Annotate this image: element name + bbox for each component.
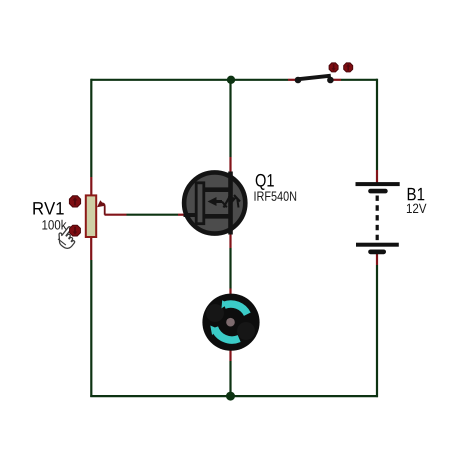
- transistor Q1 body circle: [184, 172, 245, 233]
- battery B1 top cell short plate: [368, 189, 388, 194]
- wire gate green middle: [127, 214, 179, 216]
- switch lever: [298, 76, 331, 80]
- wire motor top red pin: [229, 289, 231, 297]
- battery B1 bottom cell long plate: [356, 243, 399, 247]
- interactive up-arrow button of switch: [344, 63, 353, 72]
- mouse hand cursor: [54, 224, 80, 251]
- wire pot top red pin: [90, 177, 92, 196]
- wire center green from motor to bottom rail: [229, 361, 231, 396]
- wire top rail right segment to corner: [341, 79, 378, 81]
- wire left rail lower green: [90, 260, 92, 397]
- wire pot bottom red pin: [90, 237, 92, 260]
- motor rotation arrow bottom: [210, 326, 239, 341]
- wire battery top red pin: [376, 170, 378, 183]
- wire red stub into switch left terminal: [288, 79, 296, 81]
- wire left rail upper green: [90, 79, 92, 177]
- battery B1 top cell long plate: [356, 182, 400, 186]
- label Q1: [256, 174, 274, 190]
- transistor Q1 internal symbol: [184, 172, 241, 235]
- wire red stub from switch right terminal: [333, 79, 341, 81]
- battery B1 bottom cell short plate: [368, 250, 386, 255]
- value label 12V: [407, 204, 427, 213]
- wire mosfet source red pin: [229, 232, 231, 248]
- wire battery bottom red pin: [376, 252, 378, 265]
- motor rotation arrow top: [222, 300, 248, 314]
- wire right rail upper green: [376, 79, 378, 170]
- wire mosfet drain red pin: [229, 157, 231, 175]
- interactive up-arrow button of RV1: [69, 196, 80, 207]
- wire gate red pin at mosfet: [178, 214, 184, 216]
- value label IRF540N: [255, 191, 297, 201]
- motor shaft center dot: [226, 318, 235, 327]
- node junction top rail: [227, 76, 235, 84]
- motor M body: [202, 294, 259, 351]
- label RV1: [33, 202, 63, 214]
- potentiometer RV1 wiper arrow: [97, 200, 105, 215]
- switch right terminal: [327, 77, 334, 84]
- interactive down-arrow button of switch: [329, 63, 338, 72]
- label B1: [408, 188, 425, 200]
- node junction bottom rail: [226, 392, 235, 401]
- value label 100k: [42, 220, 66, 230]
- wire top rail left segment: [91, 79, 288, 81]
- wire center drain green from top junction: [229, 80, 231, 157]
- wire bottom rail: [90, 395, 378, 397]
- switch left terminal: [295, 77, 302, 84]
- potentiometer RV1 body: [86, 195, 96, 237]
- wire center green between mosfet and motor: [229, 248, 231, 289]
- interactive down-arrow button of RV1: [70, 225, 81, 236]
- wire motor bottom red pin: [229, 349, 231, 361]
- wire gate red stub from pot wiper: [105, 214, 127, 216]
- wire right rail lower green: [376, 265, 378, 397]
- battery internal dashed line: [376, 196, 379, 244]
